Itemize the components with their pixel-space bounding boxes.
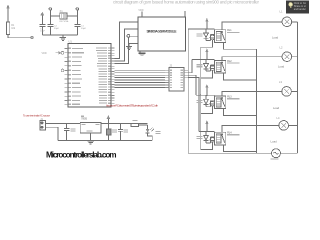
svg-text:To use terminals AC source: To use terminals AC source (23, 114, 51, 118)
svg-text:Microcontrollerslab.com: Microcontrollerslab.com (46, 151, 116, 160)
svg-text:SIM900A GSM MODULE: SIM900A GSM MODULE (147, 29, 178, 33)
svg-text:X1: X1 (60, 9, 64, 13)
svg-text:Load: Load (278, 64, 285, 68)
svg-text:RL2: RL2 (227, 60, 232, 63)
svg-text:33pF: 33pF (54, 28, 60, 30)
svg-text:RL3: RL3 (227, 95, 232, 98)
svg-text:Any source RC disconnected STB: Any source RC disconnected STB pin wire … (106, 104, 158, 108)
svg-text:VDD: VDD (42, 52, 47, 55)
svg-text:RL4: RL4 (227, 132, 232, 135)
svg-text:7805: 7805 (81, 116, 87, 120)
svg-text:and landsc: and landsc (294, 8, 307, 11)
svg-text:33pF: 33pF (81, 28, 87, 30)
svg-text:Load: Load (271, 140, 278, 144)
svg-text:VDD: VDD (138, 9, 143, 12)
svg-text:CRYSTAL: CRYSTAL (59, 20, 70, 23)
svg-text:Load: Load (273, 106, 280, 110)
svg-text:RL1: RL1 (227, 29, 232, 32)
svg-text:Load: Load (272, 36, 279, 40)
svg-text:10uF: 10uF (40, 31, 46, 33)
svg-text:circuit diagram of gsm based h: circuit diagram of gsm based home automa… (113, 0, 260, 4)
svg-text:U1: U1 (69, 40, 73, 44)
